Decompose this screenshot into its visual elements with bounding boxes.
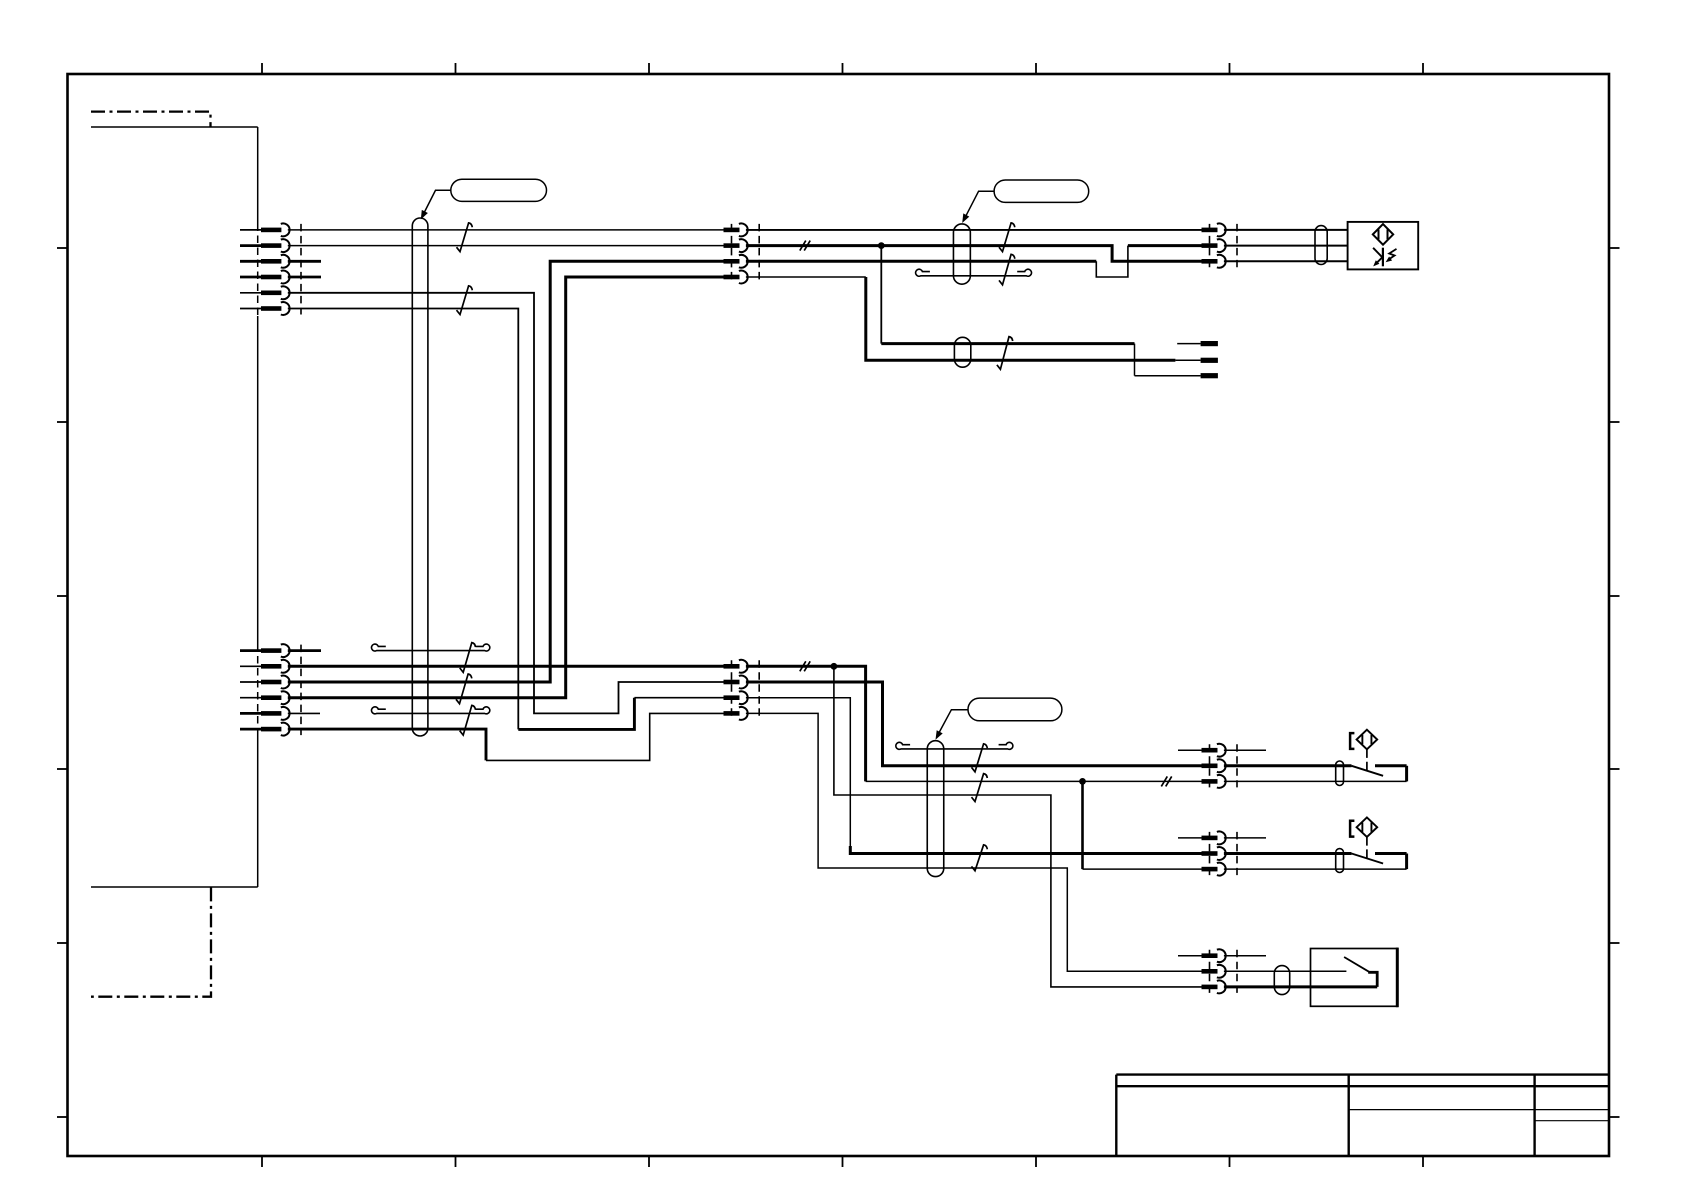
callout balloon 2 (cable W3 designation) (962, 180, 1089, 223)
limit switch S3 (box with NO contact) (1311, 948, 1398, 1008)
connector X4 (inline 4-pin, bottom) (724, 660, 760, 720)
unused pin stubs X2 pins 1,5 (288, 651, 321, 714)
connector X1 (module top, 6 pins with sockets) (240, 223, 301, 314)
wire X1.5 down to X4.2 (net w5) (288, 293, 724, 714)
wire X3.2 to X5.3 (crossover down) (746, 246, 1202, 262)
cable W3 outline (capsule) (953, 224, 970, 284)
twist mark pair X2.5-6 (460, 705, 476, 735)
cable W7 outline (capsule) (1336, 849, 1344, 873)
wire branch to spare ferrule 3 (881, 246, 1200, 376)
junction dot on X3.2 wire (878, 242, 885, 249)
wire X6.3 to switch contact (1224, 780, 1407, 782)
wire X2.6 to X4.4 (288, 713, 724, 760)
enclosure boundary dash-dot bottom (91, 887, 211, 996)
wire X3.3 to X5.2 (crossover under) (746, 246, 1202, 277)
connector X8 (3-pin, limit switch) (1178, 949, 1266, 993)
twist mark W2 pair 2 (972, 774, 988, 802)
connector X6 (3-pin, proximity switch 1) (1178, 744, 1266, 788)
double-slash mark on X3.2 wire (800, 241, 810, 251)
twist mark pair X2.3-4 (456, 674, 472, 704)
wire X7.3 to switch contact (1224, 868, 1407, 870)
twist mark pair W3 3-screen (999, 254, 1015, 284)
double-slash mark on X4.1 wire (800, 661, 810, 671)
wire X7.2 to switch blade (1224, 852, 1352, 855)
wire node K to X6.3 (1083, 780, 1202, 782)
cable W4 outline (capsule) (954, 337, 970, 367)
wire X4.2 to proximity switch 1 connector X6.2 (746, 682, 1202, 766)
wire X1.6 down to X4.3 (net w6) (288, 309, 724, 730)
twist mark pair X1.1-2 (457, 223, 473, 252)
junction dot on X4.1 wire (831, 663, 838, 670)
wire X3.4 to spare ferrule 2 (746, 277, 1201, 360)
cable W1 outline (long capsule) (412, 218, 428, 736)
connector X7 (3-pin, proximity switch 2) (1178, 831, 1266, 875)
junction dot node K (1079, 778, 1086, 785)
wire X1.2 to X3.2 (288, 245, 724, 247)
wire X4.3 to proximity switch 2 connector X7.2 (746, 698, 1202, 854)
screen line W3 with curls (916, 269, 1032, 276)
unused pin stubs X1 pins 3-4 (288, 261, 321, 277)
twist mark cable W4 (997, 337, 1013, 370)
wire X1.1 to X3.1 (288, 229, 724, 231)
wire X8.3 into limit switch box (1224, 985, 1377, 988)
twist mark pair X2.1-2 (460, 643, 476, 673)
spare cable wire-end ferrules (1177, 341, 1218, 378)
cable W8 outline (capsule) (1274, 966, 1289, 995)
wire X4.4 to limit switch connector X8.2 (746, 713, 1202, 971)
wire node K down to X7.3 (1083, 781, 1202, 869)
callout balloon 3 (cable W2 designation) (936, 698, 1062, 740)
cable W2 outline (capsule) (927, 741, 944, 877)
twist mark pair W3 1-2 (999, 223, 1015, 252)
wire X2.2 to X4.1 (288, 665, 724, 668)
callout balloon 1 (cable W1 designation) (421, 179, 547, 219)
cable W5 outline (capsule) (1315, 226, 1327, 265)
proximity switch S1 (diamond, bracket, NO contact) (1350, 730, 1407, 782)
connector X2 (module bottom, 6 pins with sockets) (240, 644, 301, 735)
screen line on X2.5 wire (371, 707, 489, 714)
wire X3.1 to X5.1 (746, 229, 1202, 231)
wires X5 to photoelectric sensor (1224, 230, 1348, 261)
module I/O rack outline (91, 127, 258, 887)
screen line W2 with curls (896, 742, 1013, 749)
wire X3.4 down to X2.4 (net w8) (288, 277, 724, 698)
twist mark W2 pair 3 (972, 845, 988, 871)
wire X8.2 into limit switch box (1224, 970, 1347, 972)
screen line on X2.1 wire (371, 644, 489, 651)
wire X6.2 to switch blade (1224, 764, 1352, 767)
cable W6 outline (capsule) (1336, 761, 1344, 785)
proximity switch S2 (diamond, bracket, NO contact) (1350, 817, 1407, 869)
wire X4.1 to proximity switch 1 feed (746, 666, 1083, 781)
twist mark W2 pair 1 (972, 744, 988, 772)
connector X3 (inline 4-pin, top) (724, 223, 760, 283)
twist mark pair X1.5-6 (457, 286, 473, 315)
wire X3.3 down to X2.3 (net w7) (288, 261, 724, 682)
wire branch junction to X8.3 (834, 666, 1202, 987)
enclosure boundary dash-dot top (91, 112, 211, 127)
photoelectric sensor B1 (box with diamond and light-beam receiver symbol) (1348, 222, 1419, 270)
title block (1116, 1075, 1609, 1156)
double-slash mark on X6.3 wire (1161, 776, 1171, 786)
connector X5 (3-pin, photoelectric sensor) (1202, 223, 1238, 267)
